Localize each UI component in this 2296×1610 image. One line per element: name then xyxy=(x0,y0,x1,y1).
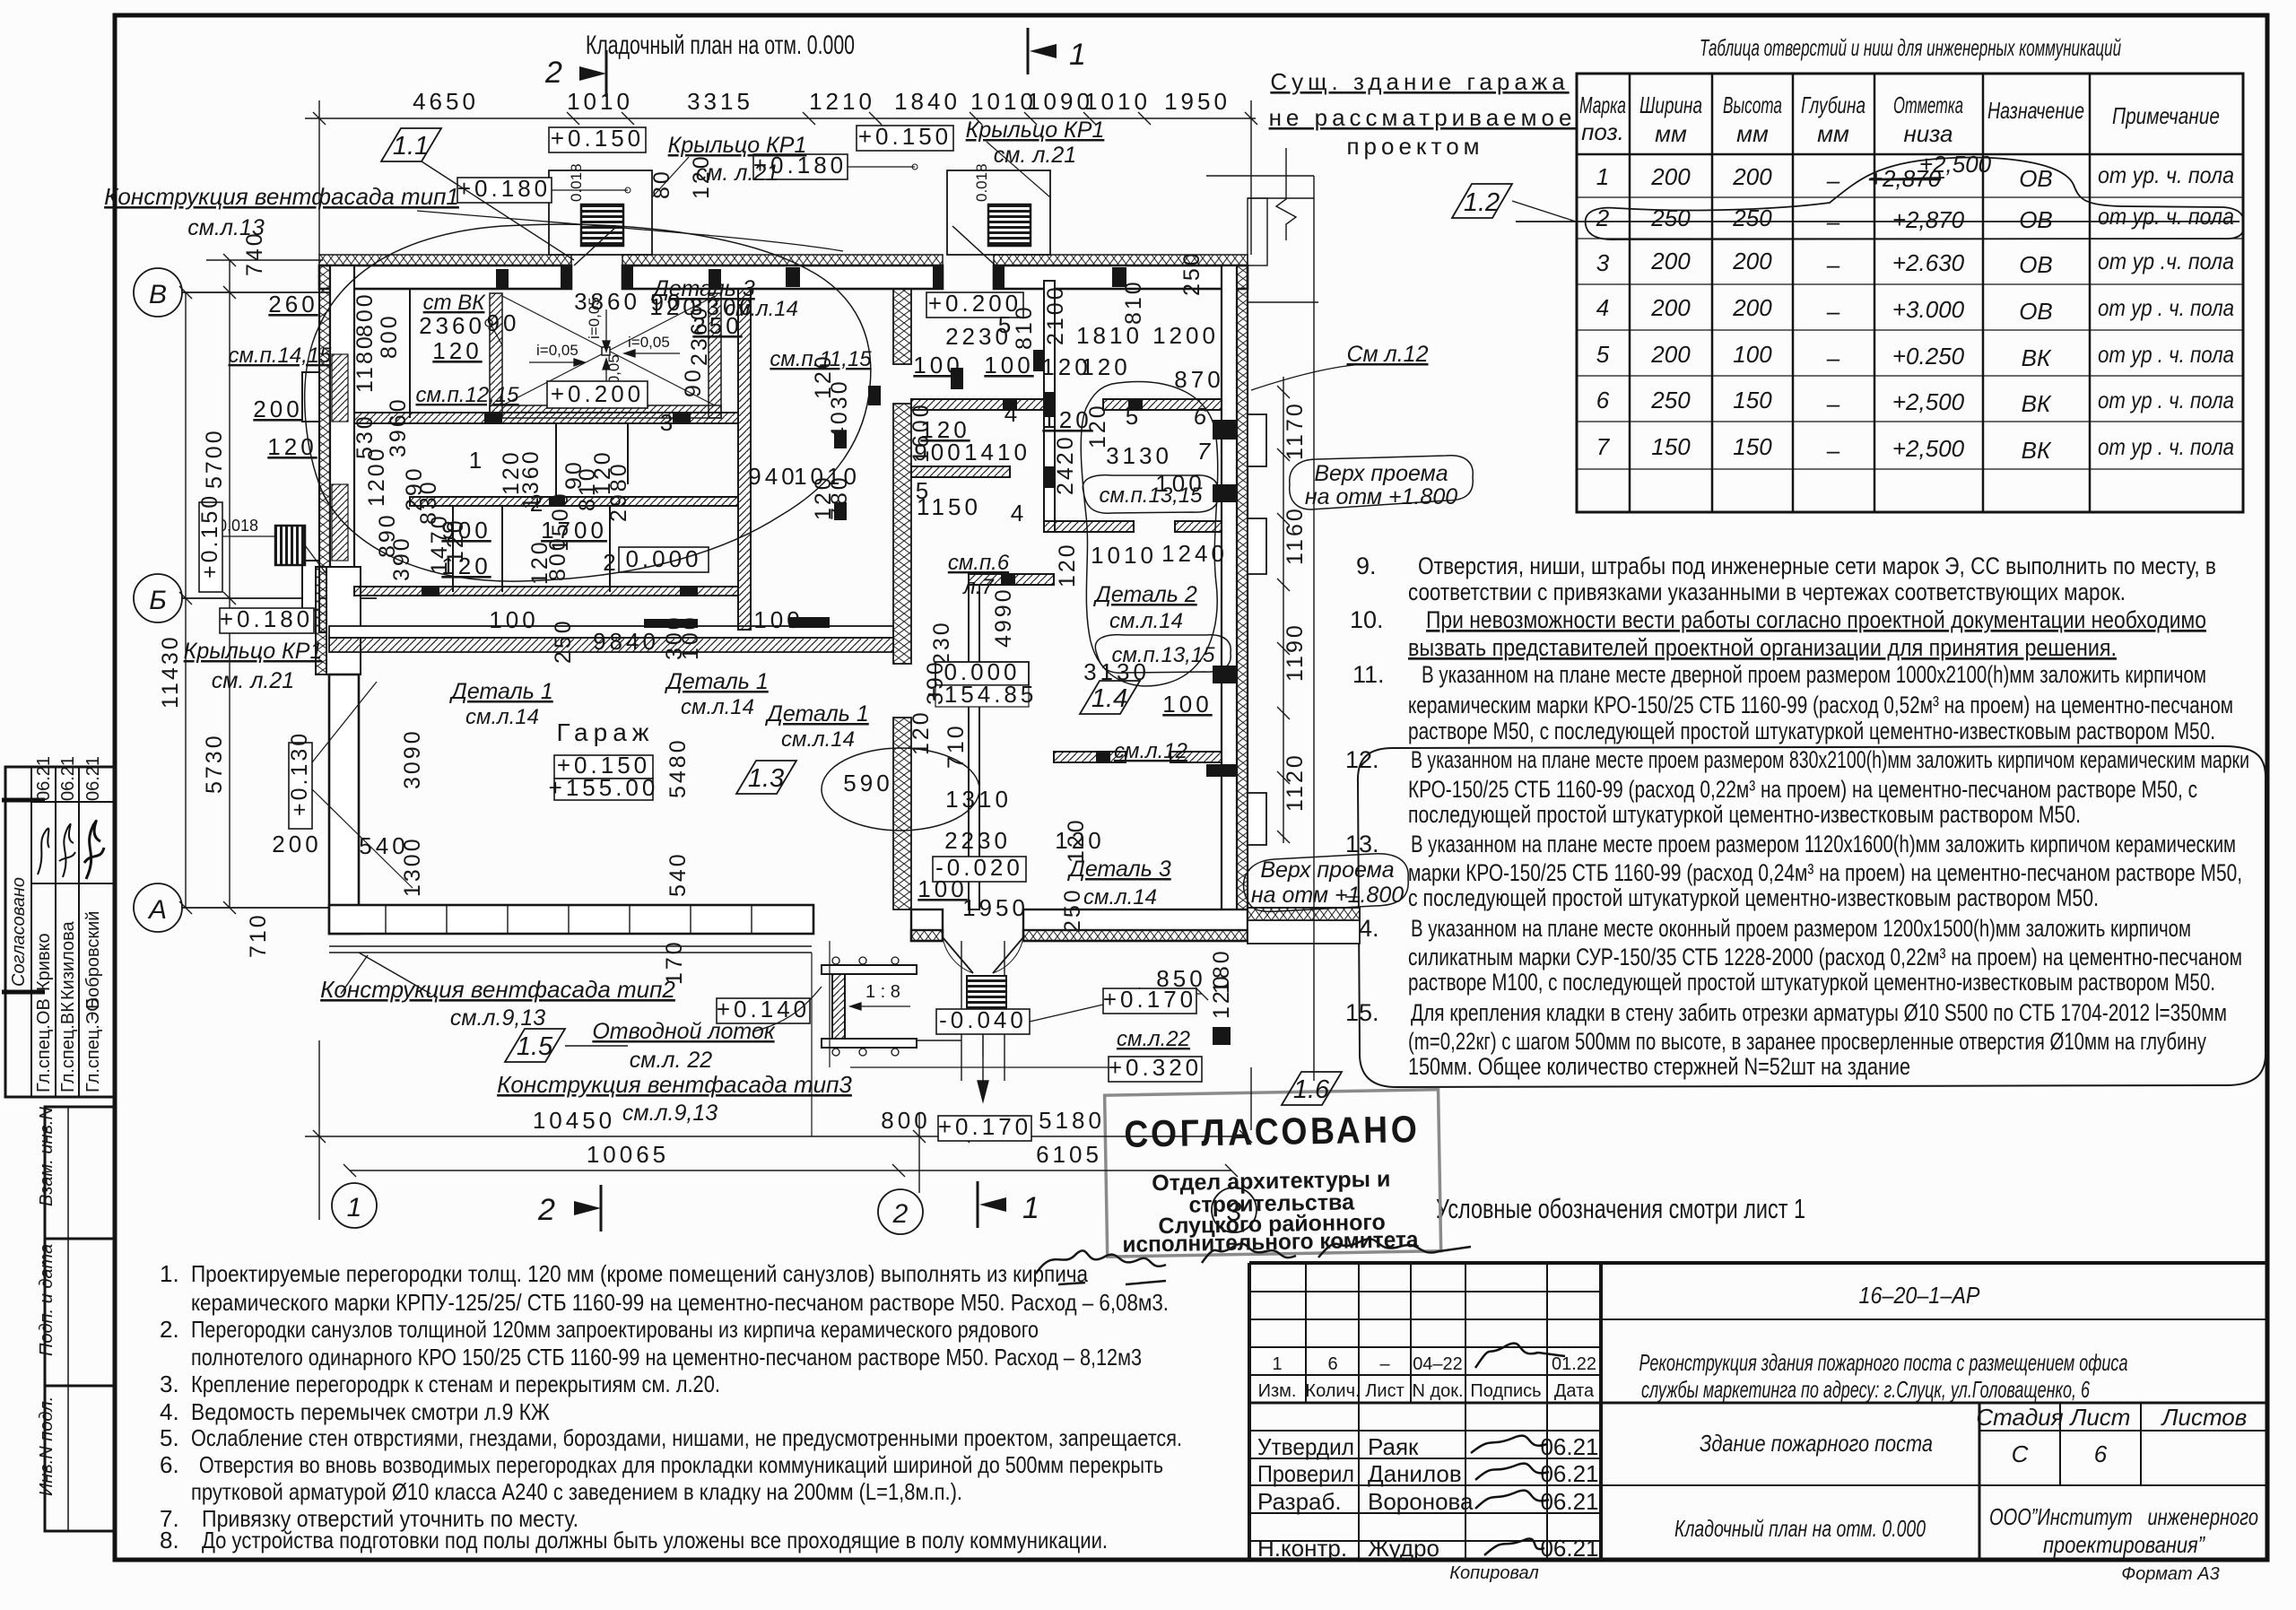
svg-text:Примечание: Примечание xyxy=(2112,102,2220,129)
svg-text:+2,500: +2,500 xyxy=(1892,435,1965,462)
svg-text:+2.630: +2.630 xyxy=(1892,249,1965,276)
building top wall insulation strip xyxy=(319,255,1248,265)
svg-text:Перегородки санузлов толщиной: Перегородки санузлов толщиной 120мм запр… xyxy=(191,1316,1039,1343)
cloud Верх проема lower xyxy=(1244,854,1409,912)
drain tray assembly xyxy=(822,965,917,1048)
svg-text:(m=0,22кг) с шагом 500мм по вы: (m=0,22кг) с шагом 500мм по высоте, в за… xyxy=(1408,1028,2206,1055)
svg-text:900: 900 xyxy=(914,439,963,466)
svg-text:5: 5 xyxy=(1126,403,1142,430)
svg-text:800: 800 xyxy=(377,313,402,359)
svg-text:см.л.9,13: см.л.9,13 xyxy=(622,1101,717,1126)
svg-text:Взам. инв.N: Взам. инв.N xyxy=(37,1107,57,1206)
svg-text:100: 100 xyxy=(913,352,962,379)
upper right labels xyxy=(1251,342,1473,509)
svg-text:см.п.12,15: см.п.12,15 xyxy=(415,383,519,407)
svg-text:590: 590 xyxy=(843,770,892,796)
big revision cloud left block xyxy=(305,224,871,581)
svg-text:Деталь 2: Деталь 2 xyxy=(1092,582,1197,607)
svg-text:1: 1 xyxy=(1022,1191,1039,1225)
svg-text:Глубина: Глубина xyxy=(1801,91,1865,118)
svg-text:см.л.12: см.л.12 xyxy=(1114,739,1187,763)
svg-text:+2,870: +2,870 xyxy=(1892,206,1965,233)
svg-text:см.л.9,13: см.л.9,13 xyxy=(450,1005,545,1031)
svg-text:7: 7 xyxy=(1197,438,1212,465)
svg-text:8.: 8. xyxy=(160,1527,179,1553)
svg-text:06.21: 06.21 xyxy=(83,756,103,801)
svg-text:100: 100 xyxy=(753,606,803,633)
flag 1.6 xyxy=(1282,1072,1342,1105)
svg-text:с последующей простой штукатур: с последующей простой штукатуркой цемент… xyxy=(1408,884,2099,911)
svg-text:см.л.14: см.л.14 xyxy=(781,727,855,752)
svg-text:6: 6 xyxy=(2094,1440,2108,1467)
holes table header xyxy=(1579,91,2220,147)
svg-text:соответствии с привязками указ: соответствии с привязками указанными в ч… xyxy=(1408,579,2126,605)
svg-text:1090: 1090 xyxy=(1027,88,1093,115)
svg-text:06.21: 06.21 xyxy=(1540,1535,1598,1562)
sidebar edge thick marks xyxy=(2,800,45,992)
svg-text:0.000: 0.000 xyxy=(625,545,701,572)
svg-text:200: 200 xyxy=(1650,294,1691,321)
svg-text:исполнительного комитета: исполнительного комитета xyxy=(1122,1227,1419,1258)
svg-text:390: 390 xyxy=(389,535,414,581)
svg-text:ОВ: ОВ xyxy=(2019,165,2053,192)
svg-text:см.л.14: см.л.14 xyxy=(681,695,754,719)
svg-text:+3.000: +3.000 xyxy=(1892,296,1965,323)
svg-text:мм: мм xyxy=(1655,120,1687,147)
svg-text:1010: 1010 xyxy=(567,88,633,115)
svg-text:3860: 3860 xyxy=(574,288,640,315)
svg-text:Гл.спец.ЭО: Гл.спец.ЭО xyxy=(83,997,103,1092)
svg-text:Отводной лоток: Отводной лоток xyxy=(592,1019,775,1044)
svg-text:Отверстия, ниши, штрабы под ин: Отверстия, ниши, штрабы под инженерные с… xyxy=(1418,553,2216,579)
svg-text:см.л.14: см.л.14 xyxy=(1109,609,1183,633)
svg-text:710: 710 xyxy=(246,912,271,958)
svg-text:Разраб.: Разраб. xyxy=(1257,1488,1342,1515)
svg-text:15.: 15. xyxy=(1345,999,1379,1026)
svg-text:810: 810 xyxy=(1121,279,1146,325)
top wall jamb blocks xyxy=(496,265,1126,289)
svg-text:2100: 2100 xyxy=(1043,284,1068,345)
garage left wall xyxy=(329,674,359,934)
svg-text:9.: 9. xyxy=(1356,553,1377,579)
svg-text:90: 90 xyxy=(681,367,706,397)
svg-text:от ур .ч. пола: от ур .ч. пола xyxy=(2098,248,2234,274)
svg-text:4650: 4650 xyxy=(413,88,479,115)
svg-text:1950: 1950 xyxy=(962,894,1029,921)
svg-text:6: 6 xyxy=(1596,387,1610,413)
svg-text:2: 2 xyxy=(544,56,562,90)
svg-text:вызвать представителей проек: вызвать представителей проектной организ… xyxy=(1408,634,2117,661)
holes table rows xyxy=(1596,151,2234,464)
corridor wall at axis B2 xyxy=(329,626,893,652)
svg-text:Для крепления кладки в стену з: Для крепления кладки в стену забить отре… xyxy=(1411,999,2227,1026)
axis circle 1 bottom xyxy=(332,1183,377,1228)
svg-text:от ур . ч. пола: от ур . ч. пола xyxy=(2098,387,2234,413)
svg-text:Верх проема: Верх проема xyxy=(1314,461,1448,486)
svg-text:Ведомость перемычек смотри л.: Ведомость перемычек смотри л.9 КЖ xyxy=(191,1398,550,1425)
svg-text:1410: 1410 xyxy=(964,439,1031,466)
svg-text:Реконструкция здания пожарного: Реконструкция здания пожарного поста с р… xyxy=(1639,1349,2128,1376)
svg-text:04–22: 04–22 xyxy=(1413,1354,1463,1374)
svg-text:250: 250 xyxy=(1650,387,1691,413)
lower wing bottom wall xyxy=(911,909,1248,941)
svg-text:Жудро: Жудро xyxy=(1368,1535,1439,1562)
shower room floor slope diagonals xyxy=(502,296,715,405)
svg-text:5480: 5480 xyxy=(665,737,691,798)
svg-text:80: 80 xyxy=(649,169,674,199)
flag 1.4 xyxy=(1080,681,1140,714)
sidebar lower boxes xyxy=(45,1107,115,1239)
svg-text:5.: 5. xyxy=(160,1424,179,1451)
svg-text:5: 5 xyxy=(1596,341,1610,368)
svg-text:150мм. Общее количество стержн: 150мм. Общее количество стержней N=52шт … xyxy=(1408,1053,1910,1080)
svg-text:1.1: 1.1 xyxy=(393,132,429,161)
svg-text:мм: мм xyxy=(1817,120,1849,147)
svg-text:Ширина: Ширина xyxy=(1639,91,1702,118)
porch 1 top xyxy=(549,170,652,255)
svg-text:КРО-150/25 СТБ 1160-99 (расход: КРО-150/25 СТБ 1160-99 (расход 0,22м³ на… xyxy=(1408,776,2197,803)
svg-text:06.21: 06.21 xyxy=(34,756,54,801)
svg-text:службы маркетинга по адресу: г: службы маркетинга по адресу: г.Слуцк, ул… xyxy=(1641,1376,2090,1403)
svg-text:не рассматриваемое: не рассматриваемое xyxy=(1269,104,1577,131)
svg-text:10065: 10065 xyxy=(587,1141,669,1168)
svg-text:При невозможности вести работы: При невозможности вести работы согласно … xyxy=(1426,606,2206,633)
stamp signatures xyxy=(1036,1239,1471,1284)
svg-text:150: 150 xyxy=(1733,387,1772,413)
svg-text:120: 120 xyxy=(1209,973,1234,1019)
door swings top wall xyxy=(574,226,996,265)
svg-text:6.: 6. xyxy=(160,1451,179,1478)
svg-text:4990: 4990 xyxy=(991,587,1016,648)
svg-text:Листов: Листов xyxy=(2161,1404,2248,1431)
svg-text:см.л.13: см.л.13 xyxy=(187,215,265,240)
left wall hatched infill panels xyxy=(332,354,348,561)
flag 1.5 xyxy=(505,1029,565,1062)
leader line from cloud to plan xyxy=(1345,896,1360,898)
svg-text:2230: 2230 xyxy=(944,827,1011,854)
svg-text:1.4: 1.4 xyxy=(1091,684,1127,713)
axis circle B2 xyxy=(134,574,377,622)
svg-text:6: 6 xyxy=(1327,1354,1337,1374)
svg-text:на отм +1.800: на отм +1.800 xyxy=(1251,883,1404,908)
svg-text:+0.150: +0.150 xyxy=(197,493,222,579)
svg-text:1810: 1810 xyxy=(1076,322,1143,349)
svg-text:Конструкция вентфасада тип1: Конструкция вентфасада тип1 xyxy=(104,183,459,210)
svg-text:В указанном на плане месте про: В указанном на плане месте проем размеро… xyxy=(1411,831,2236,857)
svg-text:3090: 3090 xyxy=(400,728,425,789)
svg-text:см.л.22: см.л.22 xyxy=(1117,1027,1190,1051)
right wall black infill blocks xyxy=(1206,420,1238,1045)
svg-text:-0.040: -0.040 xyxy=(939,1006,1027,1033)
svg-text:1160: 1160 xyxy=(1283,506,1308,565)
svg-text:4: 4 xyxy=(1596,294,1609,321)
black junction blocks xyxy=(422,413,830,628)
top dimension chain xyxy=(305,100,1257,255)
svg-text:200: 200 xyxy=(1650,341,1691,368)
svg-text:Воронова: Воронова xyxy=(1368,1488,1474,1515)
svg-text:800: 800 xyxy=(881,1107,930,1134)
svg-text:Колич.: Колич. xyxy=(1305,1381,1360,1401)
svg-text:Высота: Высота xyxy=(1723,91,1782,118)
level boxes bottom middle xyxy=(1103,988,1196,1014)
svg-text:1150: 1150 xyxy=(917,493,981,520)
svg-text:Крыльцо КР1: Крыльцо КР1 xyxy=(668,133,807,158)
svg-text:Условные обозначения смотри ли: Условные обозначения смотри лист 1 xyxy=(1436,1193,1805,1224)
svg-text:ВК: ВК xyxy=(2022,344,2052,371)
svg-text:Н.контр.: Н.контр. xyxy=(1257,1535,1347,1562)
svg-text:ВК: ВК xyxy=(2022,390,2052,417)
svg-text:Кривко: Кривко xyxy=(34,933,54,991)
svg-text:+0.130: +0.130 xyxy=(287,731,312,816)
svg-text:проектирования”: проектирования” xyxy=(2043,1531,2205,1558)
svg-text:Б: Б xyxy=(149,586,167,615)
svg-text:см.п.14,15: см.п.14,15 xyxy=(228,344,332,368)
lower wing room labels xyxy=(320,817,1408,1141)
svg-text:1: 1 xyxy=(1596,163,1609,190)
svg-text:см.п.6: см.п.6 xyxy=(948,551,1010,575)
svg-text:+0.170: +0.170 xyxy=(938,1113,1031,1140)
revision cloud right wing xyxy=(1081,382,1218,686)
svg-text:4: 4 xyxy=(1004,400,1021,427)
flag 1.3 xyxy=(736,761,796,794)
svg-text:растворе М100, с последующей п: растворе М100, с последующей простой шту… xyxy=(1408,969,2215,996)
svg-text:06.21: 06.21 xyxy=(58,756,78,801)
svg-text:0,018: 0,018 xyxy=(218,517,258,535)
svg-text:100: 100 xyxy=(678,614,703,660)
svg-text:1210: 1210 xyxy=(809,88,875,115)
garage area labels xyxy=(184,493,1012,985)
svg-text:от ур. ч. пола: от ур. ч. пола xyxy=(2098,161,2234,188)
svg-text:1.3: 1.3 xyxy=(748,764,784,793)
general notes 1-8 bottom left xyxy=(160,1260,1182,1553)
left dim chain lines xyxy=(179,254,323,914)
svg-text:Утвердил: Утвердил xyxy=(1257,1433,1354,1460)
svg-text:120: 120 xyxy=(1055,542,1080,587)
svg-text:–: – xyxy=(1379,1354,1390,1374)
svg-text:3: 3 xyxy=(1227,1197,1242,1227)
section mark 1 top xyxy=(1028,28,1086,74)
shower room walls xyxy=(490,293,721,418)
axis circle 3 bottom xyxy=(1212,1188,1257,1232)
svg-text:06.21: 06.21 xyxy=(1540,1433,1598,1460)
svg-text:1010: 1010 xyxy=(1084,88,1151,115)
flag 1.1 xyxy=(381,128,441,161)
svg-text:1840: 1840 xyxy=(894,88,961,115)
sidebar approval box xyxy=(5,767,115,1097)
svg-text:см.л.14: см.л.14 xyxy=(1083,885,1157,909)
right wing partitions xyxy=(911,281,1222,909)
flag 1.2 xyxy=(1452,184,1576,222)
svg-text:10450: 10450 xyxy=(533,1107,615,1134)
svg-text:Раяк: Раяк xyxy=(1368,1433,1419,1460)
svg-text:+0.150: +0.150 xyxy=(858,123,952,150)
svg-text:См л.12: См л.12 xyxy=(1347,342,1429,367)
svg-text:Дата: Дата xyxy=(1554,1381,1595,1401)
notes 9-15 right column xyxy=(1345,553,2249,1080)
svg-text:2: 2 xyxy=(537,1193,555,1227)
svg-text:от ур . ч. пола: от ур . ч. пола xyxy=(2098,294,2234,321)
svg-text:200: 200 xyxy=(1732,294,1772,321)
svg-text:л.7: л.7 xyxy=(961,575,995,599)
approval stamp box xyxy=(1105,1090,1441,1258)
svg-text:11430: 11430 xyxy=(158,634,183,709)
svg-text:Деталь 3: Деталь 3 xyxy=(1066,857,1171,882)
interior partitions left block xyxy=(354,289,751,630)
svg-text:100: 100 xyxy=(918,875,967,902)
svg-text:5: 5 xyxy=(998,311,1014,338)
right side dim chain xyxy=(1277,377,1290,843)
rear porch pad xyxy=(1248,908,1360,944)
svg-text:растворе М50, с последующей пр: растворе М50, с последующей простой штук… xyxy=(1408,718,2215,744)
svg-text:В: В xyxy=(149,280,167,309)
svg-text:–: – xyxy=(1826,251,1840,278)
svg-text:100: 100 xyxy=(984,352,1033,379)
svg-text:–: – xyxy=(1826,167,1840,194)
svg-text:810: 810 xyxy=(1012,304,1037,350)
svg-text:+0.170: +0.170 xyxy=(1103,986,1196,1013)
svg-text:ОВ: ОВ xyxy=(2019,206,2053,233)
svg-text:i=0,05: i=0,05 xyxy=(536,342,578,359)
existing garage building boundary xyxy=(1206,148,1318,1081)
svg-text:см.п.13,15: см.п.13,15 xyxy=(1099,483,1203,508)
porch KR1 left xyxy=(316,567,361,674)
garage bottom wall panel ticks xyxy=(386,905,752,934)
svg-text:ОВ: ОВ xyxy=(2019,251,2053,278)
svg-text:см. л.21: см. л.21 xyxy=(212,668,294,693)
svg-text:Гараж: Гараж xyxy=(556,718,654,746)
svg-text:01.22: 01.22 xyxy=(1552,1354,1596,1374)
svg-text:–: – xyxy=(1826,344,1840,371)
axis circle 2 bottom xyxy=(878,1189,923,1234)
svg-text:ст ВК: ст ВК xyxy=(423,291,487,315)
svg-text:керамического марки КРПУ-125: керамического марки КРПУ-125/25/ СТБ 116… xyxy=(191,1289,1169,1316)
svg-text:3.: 3. xyxy=(160,1371,179,1397)
svg-text:3130: 3130 xyxy=(1106,442,1172,469)
svg-text:+2,500: +2,500 xyxy=(1892,388,1965,415)
svg-text:2360: 2360 xyxy=(419,312,485,339)
svg-text:200: 200 xyxy=(253,396,302,422)
svg-text:06.21: 06.21 xyxy=(1540,1460,1598,1487)
svg-text:В указанном на плане месте око: В указанном на плане месте оконный проем… xyxy=(1411,915,2191,942)
svg-text:Марка: Марка xyxy=(1579,91,1626,118)
revision cloud around notes 12-15 xyxy=(1358,746,2266,1087)
svg-text:N док.: N док. xyxy=(1412,1381,1463,1401)
grille hatch pad xyxy=(967,976,1006,1012)
bottom dim chains xyxy=(305,1040,1252,1220)
svg-text:прутковой арматурой Ø10 класса: прутковой арматурой Ø10 класса А240 с за… xyxy=(191,1478,962,1505)
svg-text:Кладочный план на отм. 0.000: Кладочный план на отм. 0.000 xyxy=(1674,1515,1926,1542)
svg-text:см. л.21: см. л.21 xyxy=(994,143,1076,168)
cloud см.п.13,15 upper xyxy=(1083,475,1218,514)
svg-text:ОВ: ОВ xyxy=(2019,298,2053,325)
svg-text:керамическим марки КРО-150/25: керамическим марки КРО-150/25 СТБ 1160-9… xyxy=(1408,692,2233,718)
right outer wall xyxy=(1222,265,1248,941)
svg-text:С: С xyxy=(2012,1440,2029,1467)
top porch labels xyxy=(104,117,1104,260)
left grille leader xyxy=(215,536,326,574)
svg-text:+0.150: +0.150 xyxy=(551,125,644,152)
svg-text:120: 120 xyxy=(432,337,482,364)
svg-text:3: 3 xyxy=(660,409,676,436)
ramp lines below door xyxy=(906,941,1004,1101)
svg-text:100: 100 xyxy=(489,606,538,633)
table row2 strike line and revision cloud xyxy=(1516,158,2243,240)
svg-text:Кладочный план на отм. 0.000: Кладочный план на отм. 0.000 xyxy=(586,30,855,60)
connection lines bottom xyxy=(812,941,1109,1136)
svg-text:4.: 4. xyxy=(160,1398,179,1425)
svg-text:1.6: 1.6 xyxy=(1293,1075,1330,1104)
svg-text:Гл.спец.ВК: Гл.спец.ВК xyxy=(58,1002,78,1092)
svg-text:проектом: проектом xyxy=(1346,133,1483,160)
svg-text:1950: 1950 xyxy=(1164,88,1231,115)
svg-text:16–20–1–АР: 16–20–1–АР xyxy=(1859,1282,1981,1309)
porch 2 top xyxy=(947,170,1050,255)
svg-text:1180: 1180 xyxy=(352,334,378,393)
svg-text:7: 7 xyxy=(1596,433,1611,460)
title block texts xyxy=(1257,1282,2258,1584)
svg-text:800: 800 xyxy=(352,292,378,337)
level 0.000 box lower xyxy=(935,662,1029,685)
svg-text:150: 150 xyxy=(1733,433,1772,460)
svg-text:390: 390 xyxy=(923,659,948,705)
svg-text:мм: мм xyxy=(1736,120,1769,147)
svg-text:2980: 2980 xyxy=(606,461,631,522)
svg-text:250: 250 xyxy=(1179,250,1205,296)
svg-text:6105: 6105 xyxy=(1036,1141,1102,1168)
left outer wall xyxy=(319,265,354,632)
svg-text:–: – xyxy=(1826,298,1840,325)
left vent grille xyxy=(275,526,305,565)
cloud см.п.13,15 lower xyxy=(1095,635,1231,674)
svg-text:120: 120 xyxy=(909,709,934,755)
svg-text:2: 2 xyxy=(530,490,546,517)
svg-text:Проверил: Проверил xyxy=(1257,1460,1354,1487)
svg-text:Стадия: Стадия xyxy=(1976,1404,2063,1431)
svg-text:10.: 10. xyxy=(1350,606,1384,633)
existing building label xyxy=(1269,68,1577,160)
junction blocks right wing xyxy=(834,350,1143,762)
holes table grid xyxy=(1577,74,2243,512)
svg-text:Таблица отверстий и ниш для ин: Таблица отверстий и ниш для инженерных к… xyxy=(1700,34,2121,61)
right wall pier bumps xyxy=(1248,414,1266,845)
svg-text:+0.320: +0.320 xyxy=(1109,1054,1202,1081)
svg-text:+0.180: +0.180 xyxy=(457,175,551,202)
svg-text:540: 540 xyxy=(359,832,408,859)
svg-text:Отметка: Отметка xyxy=(1893,91,1963,118)
slope arrows i=0,05 xyxy=(529,309,680,395)
svg-text:200: 200 xyxy=(1650,163,1691,190)
svg-text:1: 1 xyxy=(347,1193,362,1223)
svg-text:0.018: 0.018 xyxy=(973,163,990,202)
axis circle B xyxy=(134,268,330,317)
svg-text:последующей простой штукатурко: последующей простой штукатуркой цементно… xyxy=(1408,801,2081,828)
svg-text:Проектируемые перегородки то: Проектируемые перегородки толщ. 120 мм (… xyxy=(191,1260,1088,1287)
svg-text:+0.250: +0.250 xyxy=(1892,343,1965,370)
svg-text:Формат А3: Формат А3 xyxy=(2121,1564,2219,1584)
section mark 2 bottom xyxy=(537,1185,601,1231)
svg-text:Назначение: Назначение xyxy=(1987,97,2084,124)
svg-text:Лист: Лист xyxy=(2069,1404,2131,1431)
svg-text:2: 2 xyxy=(892,1199,909,1229)
svg-text:Здание пожарного поста: Здание пожарного поста xyxy=(1700,1430,1933,1457)
svg-text:120: 120 xyxy=(1081,353,1130,380)
svg-text:+155.00: +155.00 xyxy=(549,774,659,801)
svg-text:06.21: 06.21 xyxy=(1540,1488,1598,1515)
svg-text:Изм.: Изм. xyxy=(1258,1381,1297,1401)
svg-text:Согласовано: Согласовано xyxy=(9,877,29,987)
section mark 1 bottom xyxy=(978,1181,1039,1228)
svg-text:1700: 1700 xyxy=(541,517,607,544)
